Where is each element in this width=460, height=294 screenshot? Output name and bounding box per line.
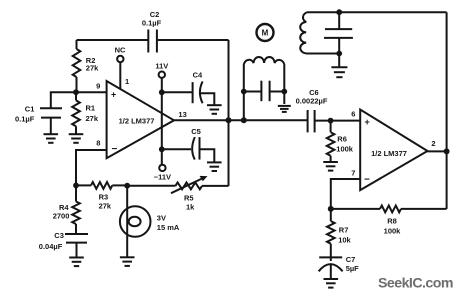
svg-text:−: − — [364, 174, 370, 185]
capacitor C5 — [192, 137, 199, 160]
node tank left — [241, 89, 247, 95]
label lamp 3V — [157, 214, 166, 223]
wire pin 1 to NC — [119, 62, 121, 89]
svg-text:C3: C3 — [54, 231, 64, 240]
svg-text:C5: C5 — [191, 127, 201, 136]
capacitor C7 — [319, 257, 343, 271]
resistor R4 — [72, 185, 80, 234]
label 11V — [155, 62, 168, 71]
svg-text:15 mA: 15 mA — [157, 223, 180, 232]
wire supply to C4 — [162, 91, 193, 93]
label R5 value 1k — [186, 203, 195, 212]
svg-text:2700: 2700 — [53, 211, 70, 220]
pin label 8 — [96, 139, 100, 148]
svg-text:C4: C4 — [193, 71, 203, 80]
svg-text:+: + — [365, 117, 370, 127]
node junction R3/lamp/R5 — [124, 183, 130, 189]
resistor R6 — [327, 121, 335, 162]
label C7 value 5uF — [346, 264, 359, 273]
wire C1 to ground — [50, 118, 52, 135]
label R6 — [337, 135, 347, 144]
op-amp U1 1/2 LM377 — [107, 81, 174, 158]
label C3 — [54, 231, 64, 240]
op-amp U2 1/2 LM377 — [360, 110, 427, 191]
terminal NC circle — [117, 56, 123, 62]
resistor R3 — [76, 182, 127, 189]
wire top right rail — [339, 11, 446, 13]
svg-text:27k: 27k — [86, 114, 99, 123]
svg-text:M: M — [262, 29, 269, 38]
label R2 — [86, 56, 96, 65]
svg-text:6: 6 — [351, 109, 355, 118]
inductor L1 (tank coil) — [244, 57, 284, 120]
node pin6/R6 junction — [328, 118, 334, 124]
R5 wiper arrow — [171, 176, 208, 193]
svg-text:0.1µF: 0.1µF — [15, 115, 35, 124]
wire C3 to ground — [76, 243, 78, 258]
label C3 value 0.04uF — [39, 242, 63, 251]
wire supply to C5 — [162, 148, 191, 150]
capacitor C3 — [65, 234, 88, 243]
wire right vertical of feedback loop x=228.5 — [228, 40, 230, 186]
node output/feedback junction — [226, 117, 232, 123]
watermark SeekIC.com — [378, 276, 453, 292]
svg-text:R7: R7 — [339, 226, 349, 235]
svg-text:R1: R1 — [86, 104, 96, 113]
wire feedback up right side — [446, 151, 448, 209]
label C5 — [191, 127, 201, 136]
resistor R2 — [73, 40, 81, 92]
svg-text:0.1µF: 0.1µF — [142, 18, 162, 27]
node junction R1/R2/C1/pin9 — [73, 89, 79, 95]
pin label 2 — [431, 139, 435, 148]
wire C4 to ground — [200, 93, 214, 105]
svg-text:100k: 100k — [384, 226, 402, 235]
label R1 — [86, 104, 96, 113]
svg-text:R5: R5 — [184, 194, 194, 203]
label R4 — [59, 203, 69, 212]
wire tank2 to ground — [338, 54, 340, 68]
label C6 value 0.0022uF — [296, 96, 328, 105]
wire node to C1 — [51, 92, 76, 108]
ground below C3 — [69, 258, 84, 267]
label C1 — [25, 104, 35, 113]
capacitor tank2 C — [324, 12, 353, 53]
capacitor C1 — [40, 108, 62, 117]
ground below lamp — [120, 257, 135, 266]
node supply/C4 junction — [159, 89, 165, 95]
svg-text:R6: R6 — [337, 135, 347, 144]
label lamp 15 mA — [157, 223, 180, 232]
svg-text:2: 2 — [431, 139, 435, 148]
label C1 value 0.1uF — [15, 115, 35, 124]
resistor R8 — [331, 206, 447, 213]
svg-text:0.0022µF: 0.0022µF — [296, 96, 328, 105]
wire node to R5 — [127, 185, 175, 187]
svg-text:1k: 1k — [186, 203, 195, 212]
wire op-amp output pin 13 — [174, 119, 308, 121]
label R3 — [99, 193, 109, 202]
svg-text:R3: R3 — [99, 193, 109, 202]
resistor R5 (pot) — [175, 183, 228, 190]
ground below C1 — [44, 134, 59, 143]
ground below tank right — [278, 106, 291, 112]
svg-text:13: 13 — [178, 110, 186, 119]
inductor L2 (tank coil) — [300, 12, 339, 53]
wire C5 to ground — [200, 149, 215, 162]
node tank2 top — [336, 9, 342, 15]
wire top feedback (right segment, y=40) — [157, 39, 229, 41]
terminal 11V circle — [159, 72, 165, 78]
label R8 value 100k — [384, 226, 402, 235]
svg-text:9: 9 — [96, 82, 100, 91]
node tank right — [281, 89, 287, 95]
node supply/C5 junction — [159, 146, 165, 152]
svg-text:R8: R8 — [387, 217, 397, 226]
label C4 — [193, 71, 203, 80]
pin label 9 — [96, 82, 100, 91]
svg-text:NC: NC — [115, 45, 126, 54]
svg-text:11V: 11V — [155, 62, 168, 71]
label R2 value 27k — [86, 63, 99, 72]
svg-text:0.04µF: 0.04µF — [39, 242, 63, 251]
svg-text:1/2 LM377: 1/2 LM377 — [119, 116, 155, 125]
svg-text:C1: C1 — [25, 104, 35, 113]
label C2 — [150, 10, 160, 19]
svg-text:8: 8 — [96, 139, 100, 148]
ground below tank2 — [331, 67, 347, 77]
label C7 — [346, 255, 356, 264]
motor M circle — [257, 24, 274, 41]
label R5 — [184, 194, 194, 203]
wire op-amp pin 8 to lower node — [76, 150, 107, 185]
label C6 — [309, 88, 319, 97]
pin label 7 — [351, 169, 355, 178]
node output/tank junction — [241, 117, 247, 123]
lamp DS1 3V 15mA — [120, 186, 151, 258]
label R7 value 10k — [338, 236, 351, 245]
node pin7/R7/R8 junction — [328, 206, 334, 212]
label -11V — [154, 172, 171, 181]
ground right of C4 — [207, 105, 222, 114]
svg-text:27k: 27k — [99, 202, 112, 211]
node tank2 bottom — [336, 51, 342, 57]
svg-text:100k: 100k — [336, 145, 354, 154]
resistor R1 — [72, 92, 80, 134]
capacitor C4 — [193, 81, 203, 103]
ground right of C5 — [207, 162, 222, 171]
ground below R6 — [323, 162, 338, 171]
resistor R7 — [327, 209, 335, 261]
label R3 value 27k — [99, 202, 112, 211]
label C2 value 0.1uF — [142, 18, 162, 27]
wire supply rail 11V to -11V — [161, 78, 163, 165]
pin label 13 — [178, 110, 186, 119]
svg-text:1/2 LM377: 1/2 LM377 — [371, 149, 407, 158]
svg-text:27k: 27k — [86, 63, 99, 72]
capacitor C6 — [308, 110, 315, 132]
wire right vertical to top — [446, 12, 448, 151]
pin label 6 — [351, 109, 355, 118]
svg-text:C7: C7 — [346, 255, 356, 264]
node junction R3/R4/pin8 — [73, 183, 79, 189]
svg-text:5µF: 5µF — [346, 264, 359, 273]
wire node to op-amp pin 9 — [76, 91, 107, 93]
wire C7 to ground — [330, 264, 332, 279]
ground below C7 — [324, 279, 339, 288]
svg-text:−: − — [112, 144, 118, 155]
terminal -11V circle — [159, 165, 165, 171]
svg-text:3V: 3V — [157, 214, 166, 223]
wire op-amp pin 7 to node — [331, 179, 360, 209]
label R4 value 2700 — [53, 211, 70, 220]
ground below R1 — [69, 134, 84, 143]
label R6 value 100k — [336, 145, 354, 154]
capacitor tank C — [244, 81, 284, 102]
svg-text:SeekIC.com: SeekIC.com — [378, 276, 453, 292]
label NC — [115, 45, 126, 54]
wire op-amp output pin 2 — [428, 150, 447, 152]
node output pin 2 junction — [444, 148, 450, 154]
capacitor C2 — [148, 30, 157, 53]
svg-text:10k: 10k — [338, 236, 351, 245]
label R8 — [387, 217, 397, 226]
svg-text:1: 1 — [125, 77, 129, 86]
svg-text:7: 7 — [351, 169, 355, 178]
svg-text:−11V: −11V — [154, 172, 171, 181]
wire C6 to pin 6 — [315, 120, 361, 122]
wire top feedback (left segment, y=40) — [77, 39, 149, 41]
pin label 1 — [125, 77, 129, 86]
label R1 value 27k — [86, 114, 99, 123]
svg-text:+: + — [111, 90, 116, 100]
label R7 — [339, 226, 349, 235]
